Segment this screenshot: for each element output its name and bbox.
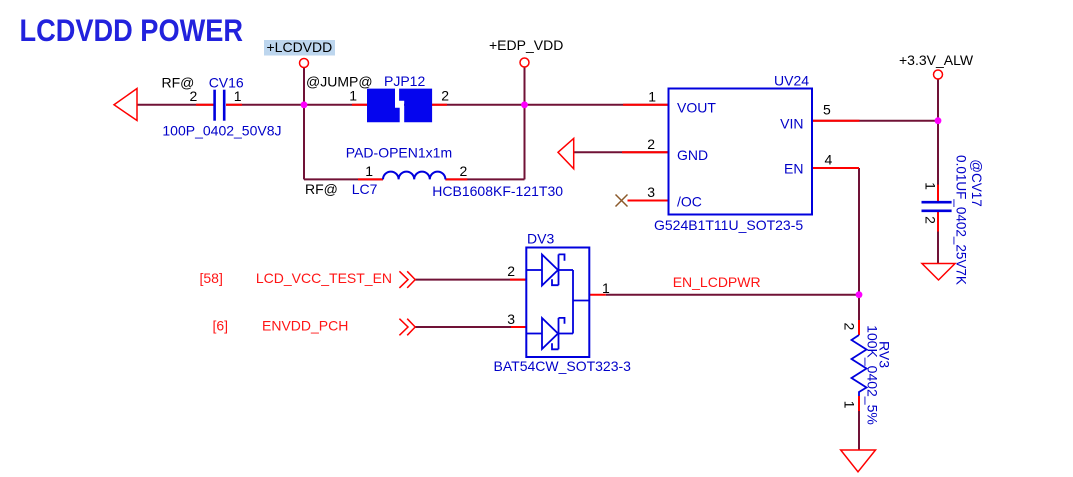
- svg-text:4: 4: [825, 152, 833, 168]
- svg-text:[58]: [58]: [200, 270, 223, 286]
- svg-text:+EDP_VDD: +EDP_VDD: [489, 37, 563, 53]
- svg-text:+LCDVDD: +LCDVDD: [267, 39, 333, 55]
- svg-text:0.01UF_0402_25V7K: 0.01UF_0402_25V7K: [954, 155, 969, 285]
- svg-text:+3.3V_ALW: +3.3V_ALW: [899, 52, 974, 68]
- svg-text:RF@: RF@: [305, 181, 338, 197]
- svg-text:2: 2: [441, 88, 449, 104]
- svg-text:EN_LCDPWR: EN_LCDPWR: [673, 274, 761, 290]
- svg-text:1: 1: [842, 401, 858, 409]
- svg-text:1: 1: [648, 89, 656, 105]
- svg-text:LCD_VCC_TEST_EN: LCD_VCC_TEST_EN: [256, 270, 392, 286]
- svg-text:BAT54CW_SOT323-3: BAT54CW_SOT323-3: [494, 358, 632, 374]
- svg-text:/OC: /OC: [677, 194, 702, 210]
- svg-text:2: 2: [507, 263, 515, 279]
- svg-text:ENVDD_PCH: ENVDD_PCH: [262, 318, 348, 334]
- svg-text:5: 5: [823, 102, 831, 118]
- svg-text:VOUT: VOUT: [677, 100, 716, 116]
- svg-text:1: 1: [365, 163, 373, 179]
- svg-text:1: 1: [349, 88, 357, 104]
- svg-text:2: 2: [923, 216, 939, 224]
- svg-text:VIN: VIN: [780, 116, 803, 132]
- svg-text:3: 3: [647, 184, 655, 200]
- svg-text:HCB1608KF-121T30: HCB1608KF-121T30: [432, 183, 563, 199]
- svg-text:LC7: LC7: [352, 181, 378, 197]
- svg-text:@JUMP@: @JUMP@: [306, 74, 373, 90]
- svg-text:@CV17: @CV17: [969, 159, 984, 206]
- svg-text:2: 2: [460, 163, 468, 179]
- svg-text:UV24: UV24: [774, 73, 809, 89]
- svg-text:GND: GND: [677, 147, 708, 163]
- svg-text:100P_0402_50V8J: 100P_0402_50V8J: [162, 123, 281, 139]
- svg-text:PJP12: PJP12: [384, 73, 425, 89]
- svg-text:1: 1: [923, 182, 939, 190]
- svg-text:LCDVDD POWER: LCDVDD POWER: [20, 12, 244, 48]
- svg-text:[6]: [6]: [213, 318, 229, 334]
- svg-text:2: 2: [190, 88, 198, 104]
- svg-text:1: 1: [602, 280, 610, 296]
- svg-text:DV3: DV3: [527, 231, 554, 247]
- svg-text:G524B1T11U_SOT23-5: G524B1T11U_SOT23-5: [654, 217, 803, 233]
- svg-text:100K_0402_5%: 100K_0402_5%: [864, 325, 880, 425]
- svg-text:2: 2: [842, 323, 858, 331]
- svg-text:PAD-OPEN1x1m: PAD-OPEN1x1m: [346, 145, 452, 161]
- svg-text:2: 2: [647, 136, 655, 152]
- svg-text:EN: EN: [784, 161, 803, 177]
- svg-text:CV16: CV16: [209, 75, 244, 91]
- svg-text:3: 3: [507, 311, 515, 327]
